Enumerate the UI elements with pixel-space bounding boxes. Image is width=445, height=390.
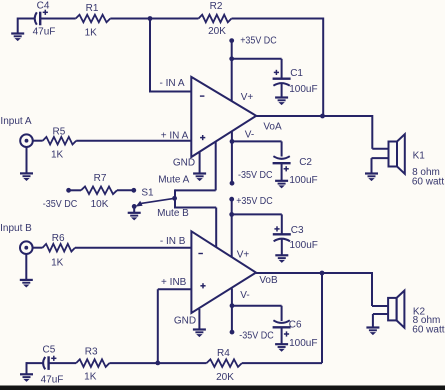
bottom black bar: [0, 386, 445, 390]
wire Input B to R6: [33, 247, 43, 249]
svg-text:- IN A: - IN A: [159, 78, 184, 89]
svg-text:-35V DC: -35V DC: [238, 170, 273, 181]
svg-text:100uF: 100uF: [289, 338, 317, 349]
node -35V DC terminal (R7): [66, 188, 71, 193]
speaker K1: [389, 134, 405, 174]
svg-text:V+: V+: [237, 250, 250, 261]
ground (C1): [275, 98, 288, 106]
label C2: [299, 157, 312, 168]
wire bottom rail: [27, 362, 323, 364]
op-amp U2 minus sign: [198, 253, 203, 255]
label R5 value 1K: [51, 149, 64, 160]
label C5 value 47uF: [41, 375, 64, 386]
label +IN B: [161, 277, 187, 288]
svg-text:Input A: Input A: [0, 116, 31, 127]
label Input B: [0, 223, 32, 234]
label R4 value 20K: [216, 372, 234, 383]
label R1 value 1K: [85, 27, 98, 38]
svg-text:R1: R1: [86, 3, 99, 14]
svg-text:1K: 1K: [84, 372, 97, 383]
label V- (A): [245, 129, 254, 140]
wire V- B rail: [231, 289, 233, 333]
node junction top rail to -IN A: [148, 16, 153, 21]
wire V+ supply A: [231, 41, 233, 102]
label Mute A: [158, 175, 189, 186]
label S1: [141, 188, 154, 199]
capacitor C5: [43, 356, 56, 370]
wire K1 return: [372, 158, 389, 173]
resistor R1: [76, 15, 111, 23]
svg-text:V-: V-: [245, 129, 254, 140]
node junction bottom rail to +IN B: [155, 361, 160, 366]
label GND (A): [173, 158, 195, 169]
svg-text:1K: 1K: [51, 258, 64, 269]
svg-text:V+: V+: [241, 92, 254, 103]
op-amp U1 minus sign: [200, 95, 205, 97]
label C2 value 100uF: [289, 175, 317, 186]
label V+ (B): [237, 250, 250, 261]
svg-text:VoB: VoB: [259, 275, 278, 286]
label R5: [53, 126, 66, 137]
label K2 60 watt: [412, 325, 444, 336]
wire V- A rail: [231, 132, 233, 184]
svg-text:20K: 20K: [208, 26, 226, 37]
wire Input A ground stem: [26, 147, 28, 173]
svg-text:100uF: 100uF: [289, 175, 317, 186]
svg-text:Mute A: Mute A: [158, 175, 189, 186]
ground (C2): [275, 181, 288, 189]
wire GND pin B: [198, 309, 200, 330]
svg-text:GND: GND: [173, 158, 195, 169]
node junction V- A to C2: [230, 139, 235, 144]
svg-text:C4: C4: [37, 1, 50, 12]
capacitor C6: [273, 320, 291, 336]
svg-text:10K: 10K: [91, 199, 109, 210]
label K2: [413, 307, 426, 318]
ground (Input A): [20, 173, 33, 181]
label R6: [52, 233, 65, 244]
wire C6 to ground: [281, 327, 283, 344]
op-amp U2 plus sign: [200, 283, 205, 288]
ground (S1): [128, 213, 141, 221]
svg-text:-35V DC: -35V DC: [239, 331, 273, 342]
svg-text:100uF: 100uF: [290, 240, 318, 251]
svg-text:1K: 1K: [51, 149, 64, 160]
node -35V DC terminal B: [230, 330, 235, 335]
label -35V DC (A): [238, 170, 273, 181]
label R7 value 10K: [91, 199, 109, 210]
label -IN B: [160, 236, 186, 247]
switch S1 lever: [136, 198, 175, 206]
label Input A: [0, 116, 31, 127]
resistor R6: [43, 244, 76, 252]
svg-text:47uF: 47uF: [41, 375, 64, 386]
svg-text:+35V DC: +35V DC: [240, 36, 277, 47]
label R6 value 1K: [51, 258, 64, 269]
svg-text:S1: S1: [141, 188, 154, 199]
svg-text:Input B: Input B: [0, 223, 32, 234]
wire Input A to R5: [33, 140, 43, 142]
node S1 lever junction: [172, 196, 177, 201]
svg-text:R5: R5: [53, 126, 66, 137]
svg-text:VoA: VoA: [263, 122, 282, 133]
label C3 value 100uF: [290, 240, 318, 251]
label +35V DC (B): [236, 196, 273, 207]
resistor R2: [199, 15, 232, 23]
label C5: [43, 345, 56, 356]
label R7: [94, 173, 107, 184]
wire +IN A: [76, 140, 191, 142]
svg-text:60 watt: 60 watt: [412, 177, 444, 188]
ground (op-amp A GND): [193, 174, 206, 182]
label C1 value 100uF: [289, 84, 317, 95]
label C4 value 47uF: [33, 27, 56, 38]
node S1 input terminal: [131, 188, 136, 193]
node -35V DC terminal A: [230, 181, 235, 186]
node junction V- B to C6: [230, 303, 235, 308]
wire S1 pole stem: [133, 206, 135, 212]
node junction V+ A to C1: [229, 56, 234, 61]
wire branch to C3: [232, 214, 282, 233]
label R2: [210, 1, 223, 12]
wire Mute B net: [175, 208, 216, 248]
wire ground stub top-left: [17, 18, 19, 34]
label C4: [37, 1, 50, 12]
switch S1 throw bar: [174, 189, 176, 208]
svg-text:+ IN A: + IN A: [161, 130, 189, 141]
svg-text:R7: R7: [94, 173, 107, 184]
op-amp U1 (channel A): [191, 77, 256, 157]
svg-text:C5: C5: [43, 345, 56, 356]
node junction VoB feedback: [320, 271, 325, 276]
capacitor C4: [35, 10, 48, 26]
resistor R4: [207, 359, 242, 367]
wire branch to C1: [232, 59, 282, 78]
ground (Input B): [20, 280, 33, 288]
ground (K1): [365, 174, 378, 182]
connector Input B jack: [20, 241, 33, 254]
ground (top-left, C4 return): [11, 34, 24, 42]
ground (C6): [275, 344, 288, 352]
wire +IN B riser: [158, 289, 191, 363]
wire branch to C2: [232, 141, 282, 156]
label C6: [289, 320, 302, 331]
svg-text:C1: C1: [290, 68, 303, 79]
svg-text:C3: C3: [291, 225, 304, 236]
svg-text:1K: 1K: [85, 27, 98, 38]
label K1 60 watt: [412, 177, 444, 188]
svg-text:R2: R2: [210, 1, 223, 12]
label R2 value 20K: [208, 26, 226, 37]
svg-text:60 watt: 60 watt: [412, 325, 444, 336]
node +35V DC terminal A: [229, 38, 234, 43]
label V- (B): [240, 290, 249, 301]
connector Input A jack: [20, 134, 33, 147]
wire C1 to ground: [281, 83, 283, 98]
op-amp U2 (channel B): [191, 231, 256, 313]
label K1 8 ohm: [412, 167, 440, 178]
wire VoA to K1: [372, 115, 388, 149]
svg-text:C2: C2: [299, 157, 312, 168]
resistor R7: [69, 187, 134, 195]
wire VoA output: [256, 115, 372, 117]
svg-text:47uF: 47uF: [33, 27, 56, 38]
label +IN A: [161, 130, 189, 141]
wire top rail from C4 ground corner to feedback corner: [18, 18, 324, 20]
wire GND pin A: [199, 152, 201, 173]
node +35V DC terminal B: [229, 197, 234, 202]
resistor R5: [43, 137, 76, 145]
label GND (B): [174, 316, 196, 327]
svg-text:R6: R6: [52, 233, 65, 244]
wire V+ supply B: [231, 199, 233, 257]
wire -IN A drop: [149, 19, 191, 92]
label Mute B: [157, 208, 189, 219]
label C3: [291, 225, 304, 236]
capacitor C3: [273, 226, 291, 241]
svg-text:-35V DC: -35V DC: [43, 199, 78, 210]
wire C5 ground stem: [26, 362, 28, 374]
op-amp U1 plus sign: [200, 135, 205, 140]
node junction VoA feedback: [320, 114, 325, 119]
wire VoB feedback drop: [321, 273, 323, 363]
label VoB: [259, 275, 278, 286]
label K1: [413, 150, 426, 161]
label V+ (A): [241, 92, 254, 103]
wire C2 to ground: [281, 163, 283, 181]
label C1: [290, 68, 303, 79]
label -IN A: [159, 78, 184, 89]
svg-text:- IN B: - IN B: [160, 236, 186, 247]
label -35V DC (B): [239, 331, 273, 342]
label C6 value 100uF: [289, 338, 317, 349]
svg-text:Mute B: Mute B: [157, 208, 189, 219]
svg-text:R4: R4: [217, 348, 230, 359]
ground (C5): [20, 374, 33, 382]
node junction V+ B to C3: [229, 212, 234, 217]
svg-text:GND: GND: [174, 316, 196, 327]
label R3 value 1K: [84, 372, 97, 383]
svg-text:+ INB: + INB: [161, 277, 187, 288]
wire VoB output: [256, 272, 372, 274]
wire branch to C6: [232, 306, 282, 321]
label R1: [86, 3, 99, 14]
svg-text:C6: C6: [289, 320, 302, 331]
wire Input B ground stem: [25, 254, 27, 280]
svg-text:K1: K1: [413, 150, 426, 161]
resistor R3: [76, 359, 109, 367]
wire C3 to ground: [281, 238, 283, 255]
label R3: [85, 347, 98, 358]
svg-text:20K: 20K: [216, 372, 234, 383]
label R4: [217, 348, 230, 359]
label VoA: [263, 122, 282, 133]
speaker K2: [388, 291, 404, 328]
wire Mute A net: [175, 142, 216, 191]
ground (C3): [275, 255, 288, 263]
label +35V DC (A): [240, 36, 277, 47]
ground (K2): [366, 328, 379, 336]
svg-text:R3: R3: [85, 347, 98, 358]
svg-text:+35V DC: +35V DC: [236, 196, 273, 207]
wire -IN B: [75, 247, 191, 249]
ground (op-amp B GND): [193, 330, 206, 338]
svg-text:V-: V-: [240, 290, 249, 301]
switch S1 pole dot: [132, 204, 137, 209]
svg-text:100uF: 100uF: [289, 84, 317, 95]
wire K2 return: [373, 314, 388, 328]
label -35V DC (R7): [43, 199, 78, 210]
capacitor C2: [273, 156, 291, 171]
wire feedback drop R2 to VoA: [322, 18, 324, 117]
label K2 8 ohm: [413, 315, 441, 326]
capacitor C1: [273, 70, 291, 86]
wire VoB to K2: [372, 272, 388, 306]
